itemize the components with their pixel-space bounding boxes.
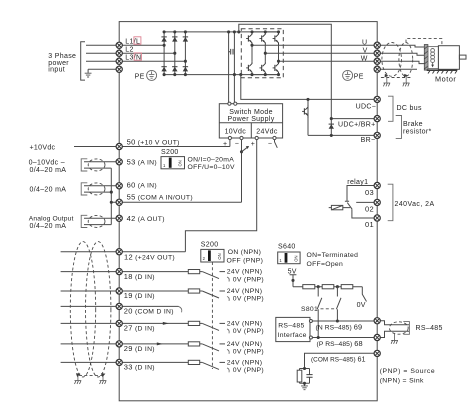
svg-text:OFF=Open: OFF=Open: [307, 261, 344, 268]
svg-text:0/4–20 mA: 0/4–20 mA: [30, 167, 67, 174]
terminal L2: [116, 50, 122, 56]
shield row 53: [81, 159, 87, 171]
motor shaft: [459, 55, 466, 59]
switch S801 left: [317, 287, 322, 338]
ground cable 1: [75, 381, 82, 384]
motor winding box: [428, 47, 439, 69]
svg-text:0V (PNP): 0V (PNP): [233, 367, 264, 374]
terminal BR+: [374, 116, 380, 122]
shield drain arrows: [385, 74, 389, 78]
terminal 20: [116, 303, 122, 309]
resistor R1: [303, 285, 315, 289]
big cable shield ellipse 2: [86, 242, 111, 377]
diode D5: [172, 67, 177, 72]
terminal W: [374, 58, 380, 64]
red box N: [134, 53, 141, 60]
svg-text:S200: S200: [201, 242, 219, 249]
svg-text:+10Vdc: +10Vdc: [30, 144, 56, 151]
transistor T5: [259, 61, 265, 74]
svg-text:U: U: [362, 39, 367, 46]
terminal 18: [116, 269, 122, 275]
bracket relay rating: [388, 184, 393, 221]
terminal 69: [374, 318, 380, 324]
svg-text:55 (COM A IN/OUT): 55 (COM A IN/OUT): [127, 193, 193, 202]
junction dots rectifier: [163, 30, 187, 76]
inverter mid links: [252, 45, 279, 61]
resistor R termination: [297, 370, 302, 382]
bracket brake resistor: [396, 116, 402, 139]
rectifier column 2: [174, 32, 176, 75]
inverter dashed box: [241, 29, 283, 78]
svg-text:V: V: [363, 47, 368, 54]
terminal U: [374, 42, 380, 48]
terminal 02: [374, 199, 380, 205]
shield row 42: [81, 215, 87, 227]
svg-text:24V (NPN): 24V (NPN): [227, 321, 263, 328]
motor terminal plate: [424, 45, 428, 71]
svg-text:24V (NPN): 24V (NPN): [227, 288, 263, 295]
row 19 D IN: [61, 290, 203, 292]
transistor T4: [246, 61, 252, 74]
svg-text:UDC+/BR+: UDC+/BR+: [338, 121, 376, 128]
dashed S200 line: [211, 262, 213, 369]
capacitor C termination: [306, 375, 312, 378]
contact NPN/PNP on 10V- rail: [240, 150, 243, 153]
junction dots dc link: [227, 30, 242, 76]
3 Phase input bracket: [81, 42, 85, 80]
svg-text:10Vdc: 10Vdc: [225, 128, 247, 135]
relay coil: [331, 205, 342, 209]
terminal 55: [116, 199, 122, 205]
svg-text:50 (+10 V OUT): 50 (+10 V OUT): [127, 138, 180, 147]
relay contact 01 wire: [352, 209, 377, 218]
wire 24V- stub with contact: [275, 140, 278, 148]
svg-text:0V (PNP): 0V (PNP): [233, 349, 264, 356]
svg-text:24V (NPN): 24V (NPN): [227, 360, 263, 367]
wire L1 input: [86, 44, 164, 46]
wire UDC- routing: [241, 75, 377, 100]
wire 24V+ rail to 12: [185, 140, 256, 252]
svg-text:240Vac, 2A: 240Vac, 2A: [395, 201, 435, 208]
terminal PE in: [116, 66, 122, 72]
svg-text:OFF (PNP): OFF (PNP): [227, 257, 264, 264]
dashed S801 link: [321, 308, 336, 310]
svg-text:42 (A OUT): 42 (A OUT): [127, 214, 165, 223]
wire W output: [279, 60, 378, 62]
svg-text:0–10Vdc –: 0–10Vdc –: [29, 160, 65, 167]
svg-text:PE: PE: [135, 73, 145, 80]
svg-text:24Vdc: 24Vdc: [256, 128, 278, 135]
diode D4: [161, 67, 166, 72]
terminal 53: [116, 159, 122, 165]
main enclosure: [119, 22, 377, 401]
svg-text:UDC−: UDC−: [356, 104, 377, 111]
terminal 03: [374, 182, 380, 188]
wire row 12: [61, 251, 186, 253]
RS-485 pins: [309, 320, 312, 323]
transistor brake chopper: [307, 99, 309, 135]
svg-text:PE: PE: [354, 73, 364, 80]
terminal 68: [374, 334, 380, 340]
SMPS box: [219, 104, 282, 138]
svg-text:24V (NPN): 24V (NPN): [227, 269, 263, 276]
terminal 33: [116, 359, 122, 365]
svg-text:ON: ON: [217, 253, 222, 259]
inverter bottom bus: [252, 74, 279, 76]
DC rail B with capacitor: [233, 32, 235, 104]
svg-text:ON: ON: [294, 255, 299, 261]
motor wires external: [380, 45, 424, 69]
svg-text:S801: S801: [301, 306, 318, 313]
svg-text:60 (A IN): 60 (A IN): [127, 181, 157, 190]
red box L: [134, 37, 141, 44]
svg-text:relay1: relay1: [347, 179, 368, 186]
PE symbol right: [343, 70, 353, 80]
svg-text:ON/I=0–20mA: ON/I=0–20mA: [188, 157, 235, 164]
svg-text:01: 01: [365, 220, 374, 229]
svg-text:W: W: [361, 55, 368, 62]
svg-text:53 (A IN): 53 (A IN): [127, 157, 157, 166]
svg-text:0V (PNP): 0V (PNP): [233, 328, 264, 335]
relay contact 03 wire: [345, 186, 377, 202]
RC network: [300, 369, 310, 386]
common return vertical: [110, 168, 112, 225]
ground cable 2: [100, 381, 107, 384]
terminal 27: [116, 320, 122, 326]
terminal V: [374, 50, 380, 56]
svg-text:BR−: BR−: [361, 137, 376, 144]
svg-text:33 (D IN): 33 (D IN): [124, 363, 155, 372]
svg-text:29 (D IN): 29 (D IN): [124, 344, 155, 353]
svg-text:Motor: Motor: [435, 75, 456, 84]
junction dots brake: [330, 117, 333, 137]
terminal 60: [116, 183, 122, 189]
switch S801 right: [336, 287, 341, 321]
svg-text:ON: ON: [178, 160, 183, 166]
svg-text:(COM RS–485) 61: (COM RS–485) 61: [311, 355, 366, 364]
junction dots bus: [317, 285, 339, 288]
svg-text:18 (D IN): 18 (D IN): [124, 272, 155, 281]
5V stub: [290, 275, 297, 287]
svg-text:02: 02: [365, 204, 374, 213]
diode D2: [172, 37, 177, 42]
terminal 50: [116, 143, 122, 149]
svg-text:S640: S640: [278, 244, 296, 251]
svg-text:24V (NPN): 24V (NPN): [227, 341, 263, 348]
wire BR- line: [308, 134, 377, 136]
wire COM RS-485: [305, 353, 378, 368]
diode D1: [161, 37, 166, 42]
inverter top bus: [252, 31, 279, 33]
rectifier bottom bus: [164, 74, 278, 76]
svg-text:0/4–20 mA: 0/4–20 mA: [30, 223, 67, 230]
svg-text:20 (COM D IN): 20 (COM D IN): [124, 307, 174, 316]
svg-text:Brake: Brake: [403, 121, 423, 128]
svg-text:03: 03: [365, 188, 374, 197]
svg-text:0/4–20 mA: 0/4–20 mA: [30, 187, 67, 194]
svg-text:−: −: [268, 141, 272, 148]
dashed PE to motor: [406, 39, 442, 46]
shield drain stubs: [387, 76, 406, 83]
terminal 12: [116, 249, 122, 255]
transistor T6: [273, 61, 279, 74]
wire U output: [252, 44, 377, 46]
wire 55 common: [111, 201, 241, 203]
terminal BR-: [374, 132, 380, 138]
dashed shield bottom link: [381, 77, 411, 79]
rectifier column 1: [163, 32, 165, 75]
motor cable shield ellipse 2: [399, 43, 413, 77]
wire L3 input: [86, 60, 185, 62]
wire UDC+ routing: [239, 24, 331, 118]
capacitor C1 dc link: [229, 49, 233, 55]
svg-text:(NPN) = Sink: (NPN) = Sink: [380, 378, 424, 385]
wire PE input: [88, 69, 119, 73]
diode D6: [183, 67, 188, 72]
PE symbol left: [147, 70, 157, 80]
SMPS input pins: [228, 102, 231, 105]
rectifier top bus: [164, 31, 278, 33]
wire BR+ line: [331, 118, 377, 120]
terminal L1: [116, 42, 122, 48]
junction dot brake tap: [306, 98, 309, 101]
svg-text:DC bus: DC bus: [397, 105, 422, 112]
row 27 D IN: [61, 322, 203, 324]
svg-text:S200: S200: [161, 149, 179, 156]
terminal 19: [116, 288, 122, 294]
terminal PE out: [374, 66, 380, 72]
resistor R3: [341, 285, 353, 289]
wire N RS-485: [312, 320, 377, 322]
DC rail A to SMPS: [228, 32, 230, 104]
resistor R2: [322, 285, 334, 289]
transistor T2: [259, 32, 265, 45]
ground input earth: [85, 73, 92, 77]
svg-text:+: +: [251, 141, 255, 148]
diode brake: [330, 119, 332, 136]
terminal UDC-: [374, 96, 380, 102]
relay arm: [347, 203, 352, 210]
svg-text:Analog Output: Analog Output: [29, 215, 74, 222]
motor body: [438, 46, 459, 70]
ground motor cable 2: [403, 83, 410, 86]
motor coil loops: [431, 49, 435, 63]
cable drain arrows: [76, 373, 80, 377]
terminal 01: [374, 215, 380, 221]
row 29 D IN: [61, 343, 203, 345]
terminal 42: [116, 215, 122, 221]
RS-485 interface box: [276, 317, 310, 341]
svg-text:(N RS–485) 69: (N RS–485) 69: [316, 323, 363, 332]
svg-text:12 (+24V OUT): 12 (+24V OUT): [124, 253, 175, 262]
motor cable shield ellipse 1: [382, 43, 402, 77]
rectifier column 3: [184, 32, 186, 75]
transistor T1: [246, 32, 252, 45]
svg-text:27 (D IN): 27 (D IN): [124, 324, 155, 333]
svg-text:Interface: Interface: [278, 332, 307, 339]
diode D3: [183, 37, 188, 42]
svg-text:−: −: [235, 141, 239, 148]
bracket DC bus: [388, 96, 393, 121]
motor arrow: [432, 62, 434, 65]
terminal 61: [374, 350, 380, 356]
svg-text:OFF/U=0–10V: OFF/U=0–10V: [188, 164, 235, 171]
svg-text:input: input: [48, 66, 65, 73]
terminal L3: [116, 58, 122, 64]
wire 10V- rail: [241, 140, 243, 203]
RS-485 cable ground: [394, 334, 396, 340]
wire P RS-485: [312, 337, 377, 339]
ground motor cable 1: [383, 83, 390, 86]
RS-485 cable shield right: [381, 321, 410, 338]
svg-text:ON (NPN): ON (NPN): [228, 249, 261, 256]
svg-text:RS–485: RS–485: [416, 325, 443, 332]
termination bus: [293, 286, 362, 288]
motor base: [427, 69, 458, 71]
svg-text:0V (PNP): 0V (PNP): [233, 296, 264, 303]
wire +10Vdc row 50: [74, 146, 230, 148]
svg-text:ON=Terminated: ON=Terminated: [307, 252, 359, 259]
svg-text:L2: L2: [125, 46, 133, 53]
relay contact 02 wire: [356, 201, 377, 203]
transistor T3: [273, 32, 279, 45]
svg-text:RS–485: RS–485: [278, 322, 304, 329]
wire 10V+ riser: [229, 140, 231, 147]
svg-text:(PNP) = Source: (PNP) = Source: [380, 368, 435, 375]
row 33 D IN: [61, 361, 203, 363]
wire L2 input: [86, 52, 175, 54]
svg-text:Power Supply: Power Supply: [227, 116, 274, 123]
ground RC earth: [301, 386, 308, 390]
0V contact: [362, 287, 366, 302]
terminal 29: [116, 341, 122, 347]
junction dots inverter: [250, 30, 280, 76]
svg-text:resistor*: resistor*: [403, 129, 432, 136]
SMPS output pins: [228, 136, 231, 139]
row 20 COM D IN: [61, 305, 179, 307]
cable drain link: [79, 374, 102, 376]
svg-text:0V: 0V: [357, 302, 366, 309]
svg-text:19 (D IN): 19 (D IN): [124, 291, 155, 300]
shield row 60: [81, 183, 87, 195]
svg-text:(P RS–485) 68: (P RS–485) 68: [317, 339, 363, 348]
cable drain stubs: [78, 376, 103, 380]
big cable shield ellipse 1: [70, 242, 95, 377]
wire V output: [265, 52, 377, 54]
svg-text:0V (PNP): 0V (PNP): [233, 276, 264, 283]
row 18 D IN: [61, 271, 203, 273]
